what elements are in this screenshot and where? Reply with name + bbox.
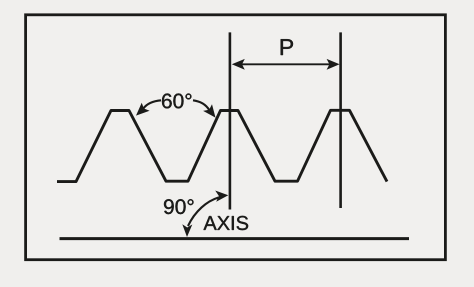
axis line [60, 237, 410, 240]
label 90 degrees [164, 199, 194, 214]
angle arrow 60 left [136, 100, 161, 115]
label AXIS [204, 216, 249, 230]
label P [281, 39, 293, 55]
label 60 degrees [162, 94, 191, 109]
angle arrow 60 right [193, 100, 216, 117]
thread profile [57, 110, 387, 181]
dimension arrow P [232, 59, 340, 70]
pitch line 2 [339, 32, 342, 208]
pitch line 1 [229, 32, 232, 209]
angle arc 90 [182, 191, 228, 238]
